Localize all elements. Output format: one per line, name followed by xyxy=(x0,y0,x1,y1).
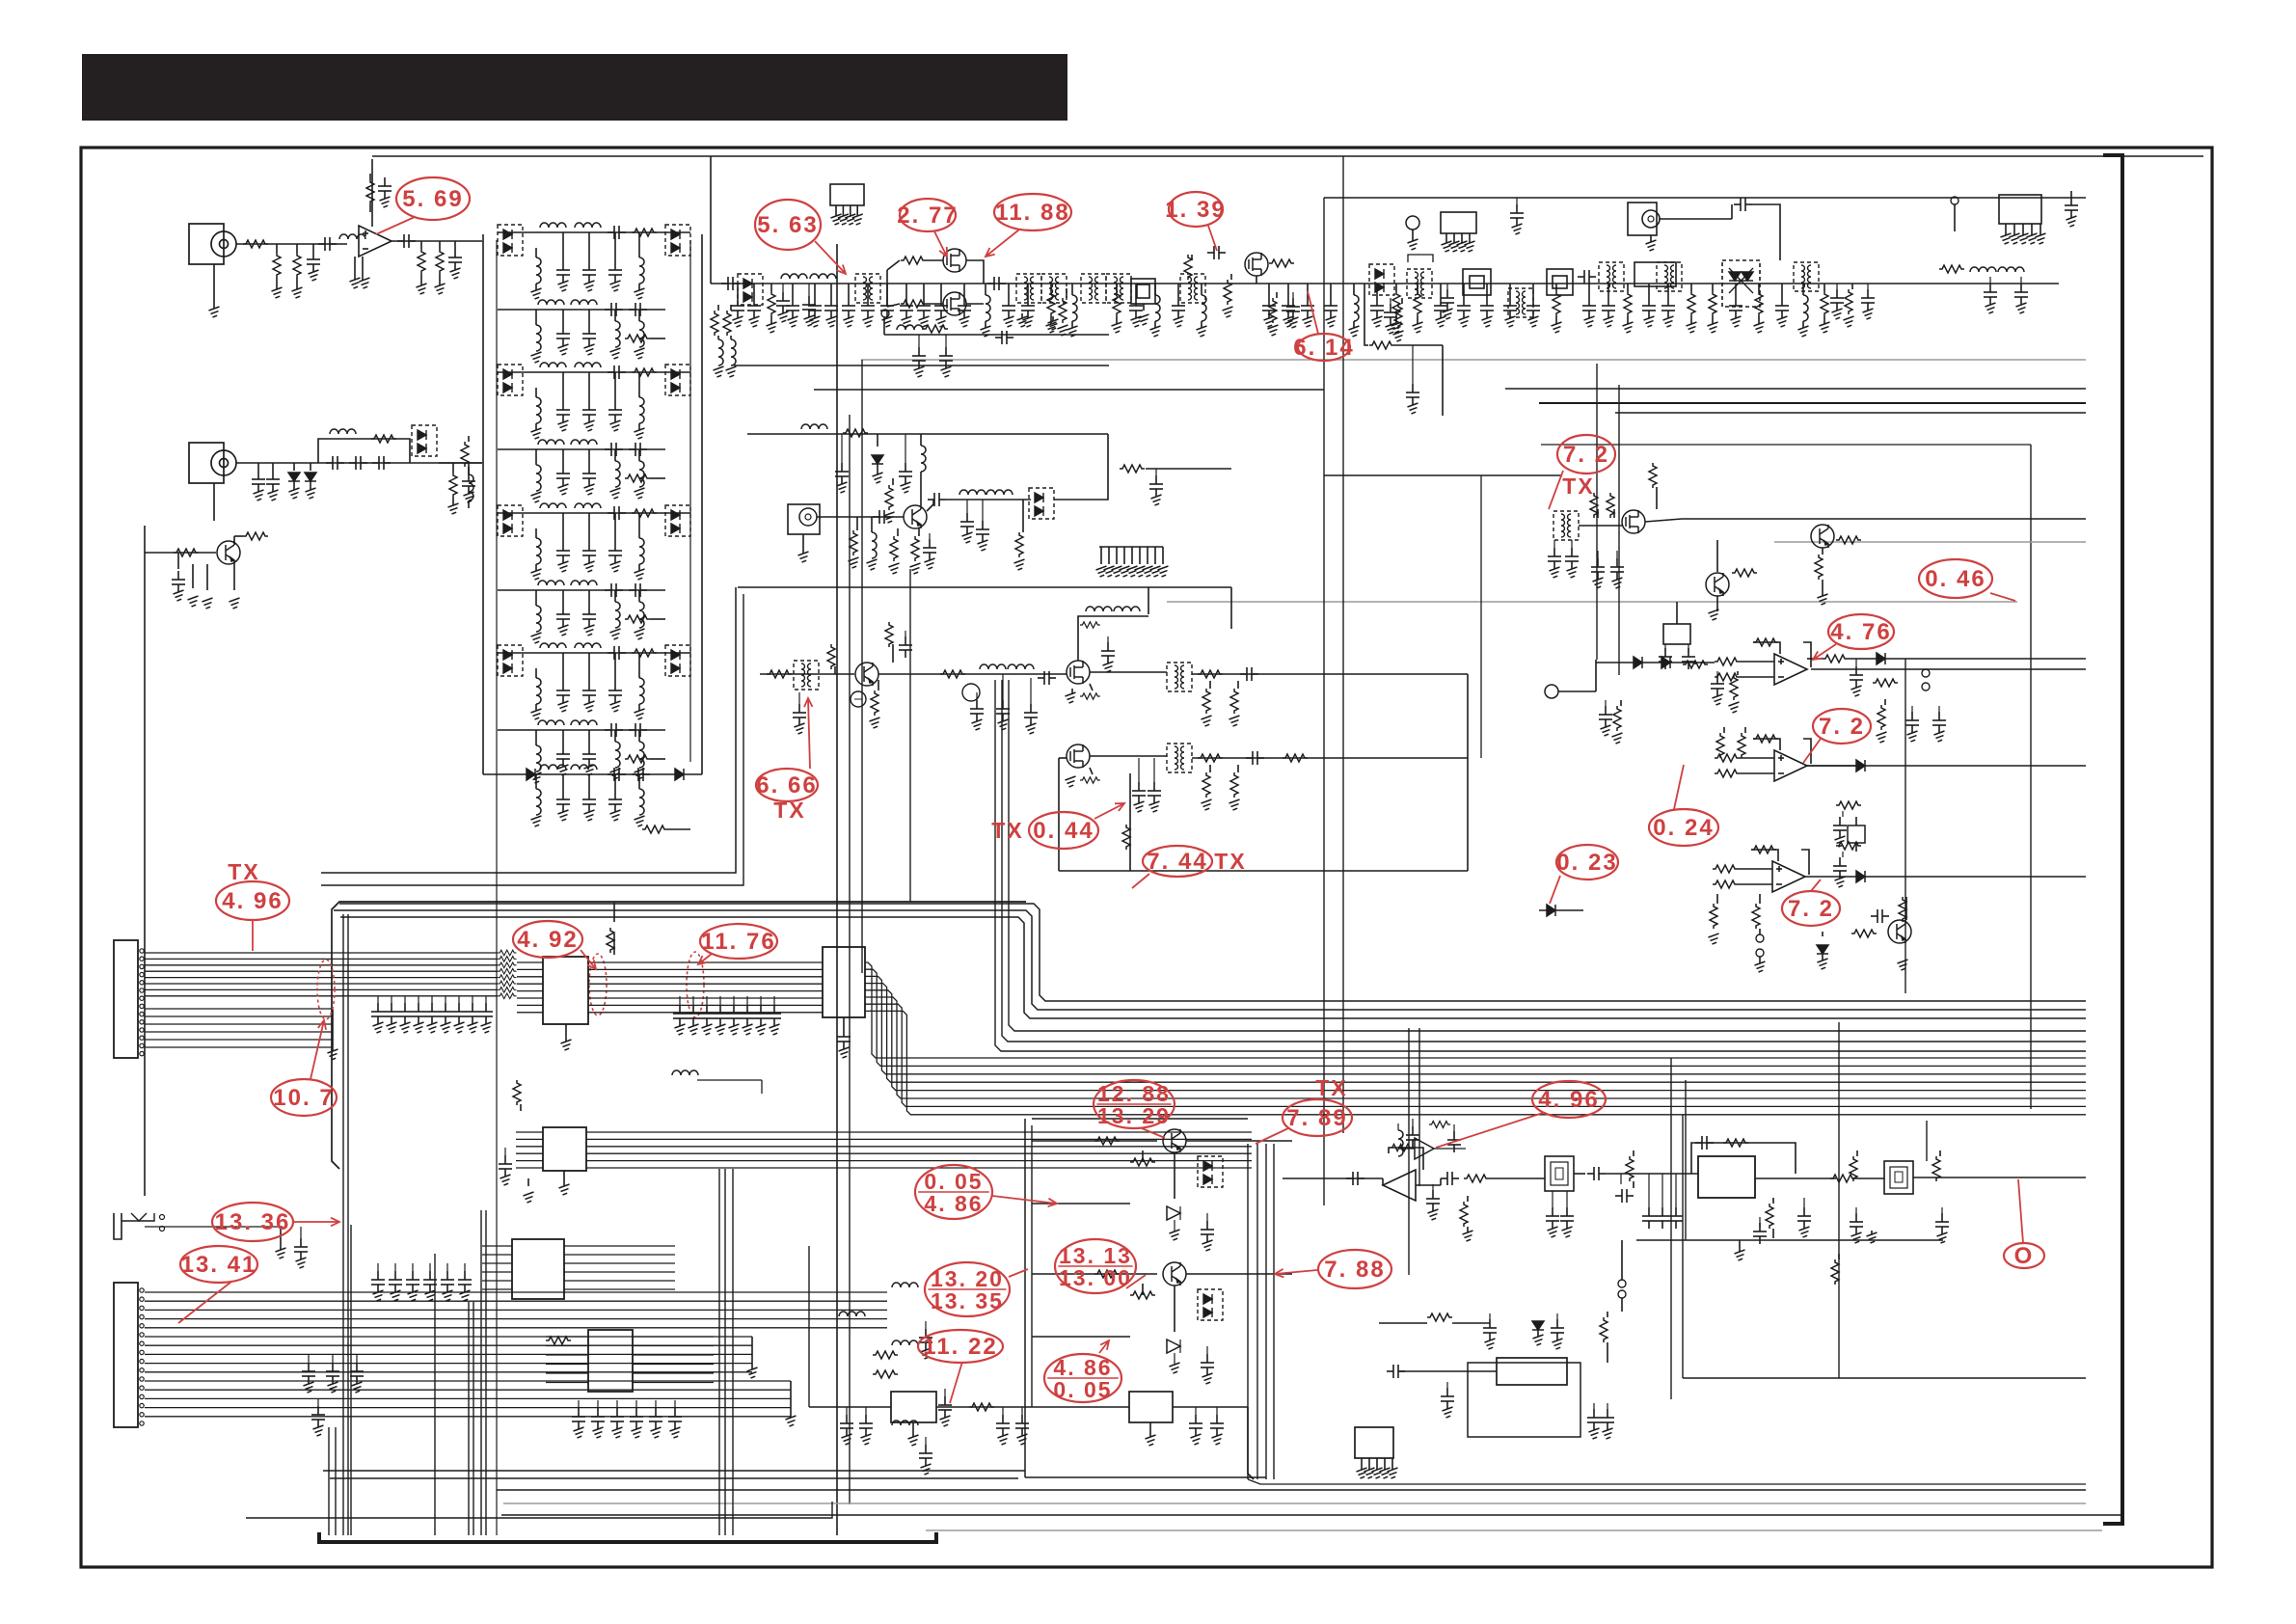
post-amp network xyxy=(397,234,462,294)
ribbon J4 xyxy=(145,953,498,1047)
bottom-left bus xyxy=(323,1471,1025,1478)
voltage label 4. 76 xyxy=(1813,614,1894,660)
regulator U11 xyxy=(1129,1392,1254,1479)
ic SIP3 xyxy=(1999,195,2046,244)
bottom bus 1 xyxy=(497,1489,2086,1491)
res above IC1 xyxy=(607,903,614,955)
wire gray mid xyxy=(861,359,2086,361)
op-amp U1 rx xyxy=(350,226,392,288)
port X2 xyxy=(788,504,820,562)
ic IC5 xyxy=(588,1330,633,1392)
IF right shunts xyxy=(1850,1150,1949,1243)
U20 feedback xyxy=(1389,1144,1423,1170)
svg-text:7. 2: 7. 2 xyxy=(1563,442,1609,468)
bottom bus 5 xyxy=(926,1529,2102,1531)
transistor Q30 xyxy=(1811,525,1861,605)
diode D5 (0.23) xyxy=(1539,905,1583,916)
voltage label 7. 88 xyxy=(1275,1250,1391,1288)
xtal filter xyxy=(1833,801,1865,887)
svg-text:7. 44: 7. 44 xyxy=(1147,849,1207,875)
voltage label 7. 89 xyxy=(1256,1075,1352,1144)
svg-text:10. 7: 10. 7 xyxy=(273,1085,334,1111)
svg-text:7. 88: 7. 88 xyxy=(1324,1257,1385,1283)
wire right h2 xyxy=(1539,402,2086,404)
wire right h3 xyxy=(1615,412,2086,414)
voltage label 13. 36 xyxy=(212,1203,339,1241)
svg-text:TX: TX xyxy=(773,798,805,823)
mid verticals xyxy=(1409,1028,1419,1275)
diode box D3 xyxy=(1029,465,1231,519)
rf chain stages left xyxy=(711,246,1454,377)
IC5 pins xyxy=(546,1337,714,1383)
voltage label 0. 24 xyxy=(1649,765,1718,846)
wire top rail xyxy=(372,155,2203,157)
mixer fet Q8 xyxy=(1059,744,1090,768)
sip IC10 xyxy=(1355,1427,1398,1478)
vco chain xyxy=(878,664,1067,701)
capacitor above amp xyxy=(378,177,392,207)
ic IC9 reg xyxy=(1387,1358,1567,1385)
U10 caps xyxy=(840,1407,1029,1446)
wire rx chain xyxy=(236,243,347,245)
voltage label 4. 86/0. 05 xyxy=(1044,1340,1121,1402)
vertical drop a xyxy=(1926,1121,1928,1161)
connector J1 (antenna BNC) xyxy=(189,224,236,317)
U41 surroundings xyxy=(1716,727,1865,771)
rx input network xyxy=(243,234,365,298)
ribbon J6 xyxy=(145,1292,887,1417)
IC1 gnd xyxy=(561,1024,572,1050)
bus A upper wires xyxy=(334,904,2086,1018)
voltage label 7. 2 xyxy=(1549,435,1615,509)
svg-text:13. 00: 13. 00 xyxy=(1059,1265,1132,1290)
IC2 support xyxy=(499,1080,534,1203)
chain riser left xyxy=(710,156,712,284)
voltage label 11. 76 xyxy=(698,924,777,964)
svg-text:13. 29: 13. 29 xyxy=(1097,1103,1171,1128)
amp riser xyxy=(371,159,373,227)
osc out caps xyxy=(960,500,1025,570)
IC2 gnd2 xyxy=(559,1171,570,1195)
ic IC8 (IF/AF) xyxy=(1698,1156,1755,1198)
IC9 support xyxy=(1379,1312,1614,1439)
left series elements xyxy=(461,436,473,508)
ic SIP2 xyxy=(1441,212,1476,252)
op-amp U40 (4.76) xyxy=(1715,638,1811,685)
connector J2 (rx ant BNC) xyxy=(189,443,236,521)
IC3 pins left xyxy=(675,962,823,1013)
F1 caps xyxy=(1546,1191,1574,1237)
wire y609 xyxy=(738,587,1231,629)
wire y1429 xyxy=(1683,1115,2086,1378)
wire rx2 xyxy=(236,462,482,464)
transistor Q1 xyxy=(145,541,240,564)
U11 caps xyxy=(1146,1407,1225,1446)
xfmr T6 xyxy=(1090,663,1192,691)
voltage label 6. 14 xyxy=(1293,291,1354,361)
bundle marker e1 xyxy=(317,960,335,1019)
left misc caps xyxy=(302,1355,364,1436)
bundle marker e2 xyxy=(589,954,607,1015)
svg-text:4. 96: 4. 96 xyxy=(222,888,283,914)
voltage label 0. 46 xyxy=(1919,559,2015,601)
Q7 bias xyxy=(1066,684,1100,703)
bottom bus 3 xyxy=(501,1514,2122,1516)
svg-text:7. 89: 7. 89 xyxy=(1286,1105,1347,1131)
transistor Q6 xyxy=(855,663,878,686)
bottom bus 2 xyxy=(503,1502,2086,1504)
vertical drop b xyxy=(1831,1022,1839,1378)
svg-text:O: O xyxy=(2014,1243,2035,1269)
svg-text:7. 2: 7. 2 xyxy=(1788,896,1834,922)
voltage label 4. 96 xyxy=(1436,1081,1606,1148)
svg-text:1. 39: 1. 39 xyxy=(1165,197,1226,223)
preamp U21 xyxy=(1398,1138,1466,1159)
IF shunt stack xyxy=(1615,1150,1943,1312)
tx bus lines xyxy=(321,587,743,885)
pll loop wires xyxy=(1059,475,1481,871)
left trunk wire xyxy=(144,526,146,1196)
IF out wire xyxy=(1913,1177,2086,1178)
osc input wire xyxy=(817,510,904,524)
op-amp U20 audio xyxy=(1283,1170,1416,1201)
vertical trunk i xyxy=(1670,1058,1672,1399)
osc out xyxy=(927,490,1031,511)
mixer support xyxy=(1548,463,1657,588)
svg-text:TX: TX xyxy=(228,859,259,884)
IC3 out bus xyxy=(865,962,2086,1115)
vertical trunk h xyxy=(1618,385,1620,675)
vertical trunk j xyxy=(1685,1080,1687,1240)
U40 surroundings xyxy=(1596,653,2086,744)
svg-text:5. 63: 5. 63 xyxy=(757,212,818,238)
ic IC3 xyxy=(823,947,865,1017)
bundle marker e3 xyxy=(687,952,704,1017)
U20 bias xyxy=(1426,1184,1473,1241)
svg-text:11. 88: 11. 88 xyxy=(995,200,1069,226)
rx2 output xyxy=(439,463,482,514)
power block enclosure xyxy=(1025,1119,1266,1477)
regulator U10 xyxy=(809,1246,1129,1422)
U20 out xyxy=(1416,1172,1545,1185)
voltage label 6. 66 xyxy=(756,698,818,823)
ic IC1 xyxy=(543,957,588,1024)
voltage label 5. 69 xyxy=(376,177,470,234)
filter bank left rail xyxy=(482,234,484,774)
ic IC6 xyxy=(512,1239,564,1299)
svg-text:6. 66: 6. 66 xyxy=(756,772,817,798)
rf chain stages right xyxy=(1384,260,2028,341)
J6 stub gnd xyxy=(747,1337,797,1426)
bypass loop xyxy=(318,429,410,463)
voltage label 2. 77 xyxy=(897,199,958,257)
IC8 out chain xyxy=(1753,1175,1884,1244)
svg-text:13. 35: 13. 35 xyxy=(931,1288,1004,1313)
IC1-IC3 ribbon xyxy=(617,962,675,1013)
wire right h4b xyxy=(1541,444,2031,446)
svg-text:0. 44: 0. 44 xyxy=(1033,818,1094,844)
ic IC2 xyxy=(543,1127,586,1171)
svg-text:0. 46: 0. 46 xyxy=(1925,566,1985,592)
voltage label 7. 44 xyxy=(1132,846,1247,888)
mixer fet xyxy=(1553,493,1682,540)
jack J5 xyxy=(114,1213,165,1239)
U42 surroundings xyxy=(1709,871,2087,972)
vertical trunk k xyxy=(1904,659,1906,993)
IC6 caps xyxy=(371,1263,472,1301)
IC8 feedback xyxy=(1691,1136,1796,1174)
cap top rail2 xyxy=(1510,198,1524,234)
connector J3 BNC xyxy=(1628,203,1660,251)
return wire a xyxy=(734,365,1109,366)
voltage label 7. 2 xyxy=(1803,709,1871,763)
ribbon stub xyxy=(328,1009,338,1060)
connector J4 xyxy=(114,940,144,1058)
wire top rail 2 xyxy=(1324,197,2086,199)
svg-text:13. 36: 13. 36 xyxy=(215,1209,291,1235)
mix2 load xyxy=(1066,758,1240,812)
rf chain ground drops xyxy=(731,284,1830,337)
power switch stage Q21 (13.13/13.00) xyxy=(1032,1262,1292,1384)
wire after amp xyxy=(392,240,482,242)
Q1 bias network xyxy=(172,532,268,609)
voltage label 4. 96 xyxy=(216,859,289,951)
vertical trunk c xyxy=(861,360,863,973)
svg-text:TX: TX xyxy=(1315,1075,1347,1100)
filter bank right rail xyxy=(701,234,703,774)
voltage label O xyxy=(2004,1179,2044,1269)
wire 0.46 line xyxy=(1167,601,2017,603)
vertical trunk e xyxy=(1323,198,1325,1205)
shield comb xyxy=(1096,547,1169,577)
mix1 load xyxy=(1202,681,1240,726)
svg-text:2. 77: 2. 77 xyxy=(897,203,958,229)
voltage label 13. 20/13. 35 xyxy=(925,1262,1028,1316)
mix2 out xyxy=(1192,751,1468,765)
vertical trunk d xyxy=(909,569,911,902)
bus A pll wires xyxy=(995,680,2086,1051)
Q6 bias xyxy=(870,622,913,728)
sub chain xyxy=(881,310,1109,377)
resistor above amp xyxy=(366,174,374,212)
voltage label 0. 23 xyxy=(1550,845,1618,904)
vertical trunk b xyxy=(849,415,851,1504)
voltage label 0. 44 xyxy=(991,803,1124,849)
diode box D1 xyxy=(412,425,437,456)
svg-text:13. 41: 13. 41 xyxy=(181,1252,257,1278)
vco wire xyxy=(760,670,854,678)
J6 filter elements xyxy=(839,1283,952,1475)
wire right gray h5 xyxy=(1774,541,2086,543)
svg-text:6. 14: 6. 14 xyxy=(1293,335,1354,361)
filter bank inner rails xyxy=(497,240,690,1535)
wire right h1 xyxy=(1505,388,2086,390)
bus B verticals xyxy=(1248,1144,2086,1484)
lower enclosure xyxy=(1468,1363,1580,1437)
U21 support xyxy=(1398,1119,1461,1156)
wire 4.76 out xyxy=(1811,668,2086,670)
capacitor right top xyxy=(2065,191,2078,227)
osc top wire xyxy=(747,424,1108,437)
wire opamp2 out xyxy=(1805,765,2086,767)
testpoint TP1 xyxy=(1406,216,1419,250)
vertical x1149 xyxy=(1107,434,1109,469)
vco chain caps xyxy=(970,674,1038,734)
svg-text:4. 92: 4. 92 xyxy=(517,927,578,953)
wire y493 xyxy=(1324,474,1562,476)
jack wires xyxy=(145,1227,308,1268)
testpoint TP2 xyxy=(1951,197,1958,231)
bottom connector bracket xyxy=(319,1532,936,1542)
xfmr T7 xyxy=(1090,744,1192,772)
ribbon resistors xyxy=(498,950,517,998)
op-amp U41 (7.2) xyxy=(1715,735,1811,781)
transistor Q31 xyxy=(1706,540,1757,620)
transistor Q5 osc xyxy=(904,505,927,528)
voltage label 11. 88 xyxy=(986,194,1071,257)
bottom verticals xyxy=(329,914,733,1535)
series cap xyxy=(1587,1167,1698,1180)
vertical x2106 xyxy=(2030,445,2032,1109)
voltage label 5. 63 xyxy=(755,200,846,274)
voltage label 4. 92 xyxy=(513,921,596,969)
voltage label 0. 05/4. 86 xyxy=(915,1165,1057,1219)
svg-text:0. 05: 0. 05 xyxy=(1053,1377,1112,1402)
ribbon caps xyxy=(371,996,493,1033)
wire right h4 xyxy=(1682,518,2086,520)
connector J6 xyxy=(114,1283,144,1427)
bottom bus 4 xyxy=(246,1502,832,1518)
ceramic filter F2 xyxy=(1884,1161,1913,1194)
right connector bracket xyxy=(2103,155,2122,1524)
voltage label 12. 88/13. 29 xyxy=(1094,1080,1175,1138)
vertical trunk a xyxy=(836,244,838,1535)
op-amp U42 (7.2) xyxy=(1713,846,1809,892)
Q5 bias xyxy=(849,517,937,574)
voltage label 13. 13/13. 00 xyxy=(1055,1239,1146,1293)
IC5 caps xyxy=(572,1400,682,1438)
svg-text:4. 76: 4. 76 xyxy=(1830,619,1891,645)
Q7 tank xyxy=(1078,607,1148,672)
filter bank bottom diodes xyxy=(483,765,702,833)
IC1 pins xyxy=(517,962,617,1013)
inductor mid xyxy=(672,1070,762,1094)
voltage label 1. 39 xyxy=(1165,192,1226,251)
rx2 input diodes xyxy=(252,456,391,501)
bandpass filter bank xyxy=(498,223,690,783)
chain drop x1415 xyxy=(1364,284,1443,416)
crystal X2 xyxy=(1659,602,1695,669)
IC2 pins bus xyxy=(516,1132,1252,1168)
svg-text:4. 86: 4. 86 xyxy=(924,1191,983,1216)
svg-text:11. 22: 11. 22 xyxy=(923,1334,997,1360)
svg-text:7. 2: 7. 2 xyxy=(1819,714,1865,740)
svg-text:0. 23: 0. 23 xyxy=(1556,850,1617,876)
osc support xyxy=(835,434,926,523)
svg-text:11. 76: 11. 76 xyxy=(701,929,775,955)
xfmr T5 xyxy=(794,661,819,690)
return wire b xyxy=(814,389,1324,391)
main chain wire xyxy=(711,283,2059,284)
svg-text:TX: TX xyxy=(1214,849,1246,874)
mixer fet Q7 xyxy=(1067,661,1090,684)
svg-text:5. 69: 5. 69 xyxy=(402,186,463,212)
voltage label 13. 41 xyxy=(178,1246,257,1323)
wire j3 xyxy=(1660,198,1780,260)
pll riser x1172 xyxy=(1122,773,1130,871)
audio amp stage xyxy=(1817,897,1911,970)
port X3 xyxy=(1545,660,1596,698)
mix1 out xyxy=(1192,667,1468,681)
IC6 pins xyxy=(482,1246,675,1289)
IC3 caps xyxy=(673,996,781,1035)
ceramic filter F1 xyxy=(1545,1156,1585,1191)
voltage label 11. 22 xyxy=(918,1330,1003,1403)
digital block outline xyxy=(332,902,1026,1169)
T5 support xyxy=(793,644,866,734)
vertical trunk g xyxy=(1596,364,1598,660)
svg-text:0. 24: 0. 24 xyxy=(1653,815,1714,841)
svg-text:TX: TX xyxy=(1562,474,1594,499)
IC3 gnd xyxy=(837,1017,851,1058)
power switch stage Q20 (12.88/13.29) xyxy=(1032,1129,1292,1251)
vertical trunk f xyxy=(1342,156,1344,1133)
black title bar xyxy=(82,54,1067,121)
voltage label 7. 2 xyxy=(1782,880,1840,926)
svg-text:TX: TX xyxy=(991,818,1023,843)
ic SIP1 xyxy=(830,184,864,225)
voltage label 10. 7 xyxy=(271,1020,337,1116)
svg-text:4. 96: 4. 96 xyxy=(1538,1087,1599,1113)
